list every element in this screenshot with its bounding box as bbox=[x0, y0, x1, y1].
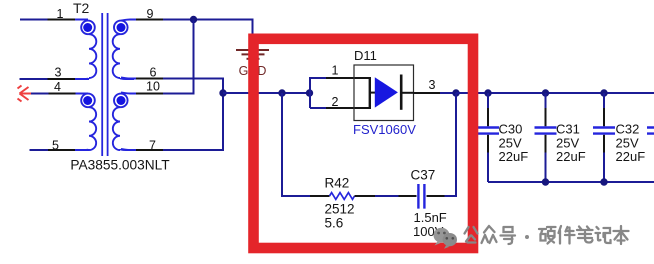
wire R42 to C37 bbox=[375, 195, 399, 197]
char gong bbox=[465, 227, 478, 243]
wire pin6 to node bbox=[163, 79, 223, 94]
capacitor C37 plates bbox=[418, 184, 424, 209]
svg-text:4: 4 bbox=[54, 80, 61, 94]
wire snubber left vertical bbox=[282, 93, 310, 196]
capacitor C31 plates bbox=[535, 128, 557, 134]
diode pin 2 stub bbox=[326, 107, 370, 109]
svg-text:1.5nF: 1.5nF bbox=[414, 210, 447, 225]
svg-text:FSV1060V: FSV1060V bbox=[353, 122, 416, 137]
diode D11 body outline bbox=[354, 65, 414, 121]
pin 7 stub bbox=[121, 149, 136, 150]
junction pin9 bbox=[190, 16, 197, 23]
wire pin9 to junction bbox=[163, 19, 194, 21]
primary winding 1-3 bbox=[75, 21, 96, 79]
annotation red box bbox=[254, 39, 474, 248]
capacitor C32 plates bbox=[593, 128, 615, 134]
capacitor C31 bottom lead bbox=[545, 135, 547, 153]
svg-text:2: 2 bbox=[332, 95, 339, 109]
junction C32 bottom bbox=[600, 178, 607, 185]
resistor R42 right stub bbox=[355, 195, 376, 197]
capacitor C30 bottom lead bbox=[487, 135, 489, 153]
wire pins 1-2 loop bbox=[310, 78, 318, 108]
pin 3 stub bbox=[48, 78, 76, 80]
watermark wechat icon bbox=[434, 228, 457, 249]
watermark text bbox=[465, 226, 629, 244]
junction diode pins split bbox=[306, 89, 313, 96]
pin 10 stub bbox=[121, 92, 136, 93]
pin 4 wire bbox=[31, 93, 49, 95]
wire pin7 to node vertical bbox=[163, 93, 223, 150]
pin 1 wire bbox=[20, 19, 48, 21]
char jian bbox=[559, 226, 575, 244]
pin 9 stub bbox=[121, 20, 136, 21]
wire C37 to output node bbox=[445, 93, 457, 196]
svg-text:3: 3 bbox=[429, 78, 436, 92]
capacitor C30 plates bbox=[477, 128, 499, 134]
char bi bbox=[577, 227, 593, 243]
capacitor partial at right edge bbox=[647, 128, 654, 134]
wire output rail top bbox=[456, 92, 654, 94]
diode internal anode line bbox=[370, 92, 376, 94]
ground GND symbol bbox=[236, 50, 269, 59]
svg-text:3: 3 bbox=[55, 66, 62, 80]
diode cathode bar bbox=[400, 75, 403, 110]
wire pin3 to output node bbox=[440, 92, 456, 94]
off-page arrow (red) bbox=[18, 86, 32, 102]
diode pin 1 stub bbox=[326, 77, 370, 79]
capacitor C32 bottom lead bbox=[603, 135, 605, 153]
pin 5 wire bbox=[30, 149, 49, 151]
junction C31 bottom bbox=[542, 178, 549, 185]
pin 5 stub bbox=[48, 149, 75, 151]
capacitor C37 left stub bbox=[399, 195, 417, 197]
char ji bbox=[596, 227, 611, 243]
diode pin 3 stub bbox=[414, 92, 441, 94]
node junction main bbox=[219, 89, 226, 96]
svg-text:10: 10 bbox=[146, 80, 160, 94]
secondary winding 9-6 bbox=[113, 21, 134, 79]
junction snubber tap bbox=[278, 89, 285, 96]
winding 4-5 polarity dot bbox=[83, 96, 92, 105]
svg-text:R42: R42 bbox=[325, 176, 350, 191]
resistor R42 left stub bbox=[310, 195, 330, 197]
pin 4 stub bbox=[49, 93, 76, 95]
char ben bbox=[614, 226, 629, 244]
primary winding 4-5 bbox=[75, 94, 96, 151]
winding 1-3 polarity dot bbox=[83, 23, 92, 32]
diode triangle bbox=[375, 77, 398, 107]
pin 3 wire bbox=[20, 78, 48, 80]
junction C32 top bbox=[600, 89, 607, 96]
svg-text:C30: C30 bbox=[499, 122, 523, 137]
svg-text:1: 1 bbox=[332, 64, 339, 78]
pin 1 stub bbox=[48, 19, 76, 21]
svg-text:2512: 2512 bbox=[325, 202, 355, 217]
middle dot bbox=[525, 235, 529, 239]
char ying bbox=[539, 227, 556, 244]
capacitor C37 right stub bbox=[427, 195, 445, 197]
svg-text:C31: C31 bbox=[556, 122, 580, 137]
diode internal cathode line bbox=[402, 92, 414, 94]
pin 6 stub bbox=[121, 77, 136, 78]
svg-text:6: 6 bbox=[150, 66, 157, 80]
wire output rail bottom bbox=[488, 181, 654, 183]
svg-text:5.6: 5.6 bbox=[325, 215, 344, 230]
diode anode common bar bbox=[369, 77, 371, 109]
capacitor C31 top lead bbox=[545, 93, 547, 108]
junction C30 top bbox=[484, 89, 491, 96]
svg-text:T2: T2 bbox=[73, 0, 90, 16]
capacitor C30 top lead bbox=[487, 93, 489, 108]
junction C31 top bbox=[542, 89, 549, 96]
secondary winding 10-7 bbox=[113, 94, 134, 151]
wire junction to GND corner bbox=[194, 20, 253, 49]
capacitor C32 top lead bbox=[603, 93, 605, 108]
svg-text:C37: C37 bbox=[411, 168, 436, 183]
winding 10-7 polarity dot bbox=[117, 96, 126, 105]
svg-text:D11: D11 bbox=[354, 48, 377, 63]
svg-text:PA3855.003NLT: PA3855.003NLT bbox=[70, 158, 170, 173]
transformer core bbox=[102, 13, 107, 156]
resistor R42 zigzag bbox=[330, 193, 355, 200]
output node junction bbox=[452, 89, 459, 96]
svg-text:C32: C32 bbox=[616, 122, 640, 137]
winding 9-6 polarity dot bbox=[117, 23, 126, 32]
svg-text:22uF: 22uF bbox=[499, 149, 529, 164]
wire pin10 to pin9 vertical bbox=[163, 20, 194, 94]
char zhong bbox=[482, 226, 497, 243]
svg-text:22uF: 22uF bbox=[556, 149, 586, 164]
char hao bbox=[501, 227, 516, 244]
svg-text:22uF: 22uF bbox=[616, 149, 646, 164]
wire node to diode loop bbox=[223, 92, 310, 94]
